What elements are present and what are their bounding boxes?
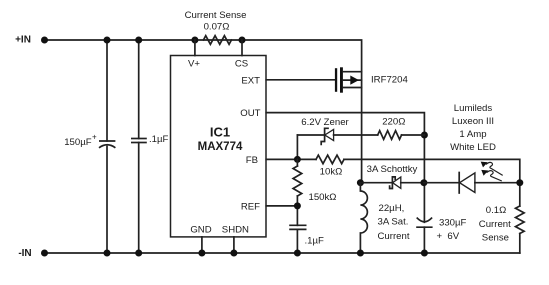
node dot switch node (357, 179, 364, 186)
wire top rail (45, 40, 362, 183)
transistor Q1 arrow (350, 76, 359, 85)
svg-text:3A Schottky: 3A Schottky (367, 164, 418, 175)
wire schottky right lead (401, 182, 424, 184)
transistor Q1 IRF7204 gate bar (335, 68, 337, 92)
svg-text:FB: FB (246, 155, 258, 166)
wire FB line (266, 158, 316, 160)
node dot out/zener (421, 132, 428, 139)
svg-text:EXT: EXT (241, 75, 260, 86)
wire FB line to right rail (344, 159, 520, 206)
wire LED left lead (424, 182, 459, 184)
node dot C1 bottom (104, 250, 111, 257)
node dot FB (294, 156, 301, 163)
svg-text:IC1: IC1 (210, 124, 230, 139)
diode D2 schottky triangle (393, 177, 401, 188)
svg-text:150kΩ: 150kΩ (309, 192, 337, 203)
svg-text:0.1Ω: 0.1Ω (486, 205, 507, 216)
svg-text:Current Sense: Current Sense (185, 10, 247, 21)
diode D2 3A schottky bar (390, 177, 396, 189)
wire SHDN pin (233, 237, 235, 253)
svg-text:V+: V+ (188, 59, 200, 70)
wire V+ pin (194, 40, 196, 56)
wire FB node down (296, 159, 298, 166)
wire schottky left lead (360, 182, 392, 184)
node dot SHDN (230, 250, 237, 257)
wire bottom rail (45, 252, 520, 254)
transistor Q1 channel bar (340, 67, 343, 92)
capacitor C4 330uF curved plate (417, 218, 432, 222)
svg-text:22µH,: 22µH, (379, 203, 405, 214)
capacitor C4 flat plate (416, 226, 432, 228)
svg-text:REF: REF (241, 201, 260, 212)
svg-text:.1µF: .1µF (149, 134, 169, 145)
wire zener left lead (297, 134, 324, 136)
svg-text:+: + (92, 133, 97, 142)
wire 220 ohm right lead (402, 134, 425, 136)
node dot C2 top (135, 37, 142, 44)
node dot C1 top (104, 37, 111, 44)
svg-text:+ 6V: + 6V (437, 231, 460, 242)
wire R5 bottom to rail (519, 234, 521, 254)
resistor R5 0.1 ohm zigzag (516, 206, 525, 233)
capacitor C2 plates (131, 138, 147, 140)
inductor L1 (360, 183, 367, 253)
wire zener right lead (334, 134, 378, 136)
svg-text:-IN: -IN (18, 248, 31, 259)
svg-text:Current: Current (378, 231, 410, 242)
node dot +IN (41, 37, 48, 44)
node dot L1 bottom (357, 250, 364, 257)
op-amp U1 IC1 MAX774 box (171, 56, 267, 237)
svg-text:Sense: Sense (482, 232, 509, 243)
node dot GND (198, 250, 205, 257)
node dot REF (294, 202, 301, 209)
LED D3 triangle (460, 173, 475, 193)
capacitor C1 150uF branch wires (106, 40, 108, 141)
svg-text:0.07Ω: 0.07Ω (204, 22, 230, 33)
svg-text:Current: Current (479, 219, 511, 230)
node dot -IN (41, 250, 48, 257)
svg-text:6.2V Zener: 6.2V Zener (301, 117, 349, 128)
wire CS pin (241, 40, 243, 56)
capacitor C2 0.1uF branch wires (138, 40, 140, 139)
svg-text:White LED: White LED (450, 142, 496, 153)
node dot output node LED line (420, 179, 427, 186)
node dot LED right (516, 179, 523, 186)
wire GND pin (201, 237, 203, 253)
svg-text:CS: CS (235, 59, 248, 70)
wire output node below cap to rail (423, 227, 425, 253)
svg-text:Luxeon III: Luxeon III (452, 116, 494, 127)
resistor R3 10k zigzag (316, 155, 344, 164)
LED D3 cathode bar (458, 173, 460, 194)
diode D1 zener triangle (325, 129, 334, 140)
svg-text:330µF: 330µF (439, 217, 467, 228)
wire 150k to REF node (296, 196, 298, 225)
svg-text:+IN: +IN (15, 35, 31, 46)
svg-text:1 Amp: 1 Amp (459, 129, 486, 140)
resistor R2 220 ohm zigzag (378, 131, 402, 140)
wire zener branch vertical (296, 135, 298, 159)
node dot R1 left / V+ (191, 37, 198, 44)
capacitor C1 150uF plates (99, 140, 115, 142)
svg-text:10kΩ: 10kΩ (320, 167, 343, 178)
svg-text:150µF: 150µF (64, 137, 92, 148)
wire LED right lead (475, 182, 520, 184)
svg-text:Lumileds: Lumileds (454, 103, 493, 114)
diode D1 6.2V zener bar (321, 128, 328, 144)
wire EXT to gate (266, 79, 335, 81)
resistor R4 150k zigzag (293, 166, 302, 196)
svg-text:220Ω: 220Ω (382, 117, 405, 128)
node dot C3 bottom (294, 250, 301, 257)
transistor Q1 terminals (343, 71, 362, 73)
LED D3 emission arrow 1 (486, 162, 503, 175)
resistor R1 0.07 ohm current sense zigzag (203, 36, 231, 45)
node dot R1 right / CS (239, 37, 246, 44)
svg-text:GND: GND (190, 225, 211, 236)
node dot C4 bottom (421, 250, 428, 257)
svg-text:MAX774: MAX774 (198, 141, 243, 153)
svg-text:IRF7204: IRF7204 (371, 75, 408, 86)
svg-text:.1µF: .1µF (305, 236, 325, 247)
svg-text:SHDN: SHDN (222, 225, 249, 236)
capacitor C3 REF 0.1uF plates (289, 224, 306, 226)
wire REF pin (266, 205, 297, 207)
LED D3 emission arrow 2 (487, 171, 502, 181)
wire OUT pin to output node (266, 113, 424, 223)
svg-text:3A Sat.: 3A Sat. (378, 217, 409, 228)
node dot C2 bottom (135, 250, 142, 257)
capacitor C3 lower wire (296, 229, 298, 253)
svg-text:OUT: OUT (240, 108, 260, 119)
